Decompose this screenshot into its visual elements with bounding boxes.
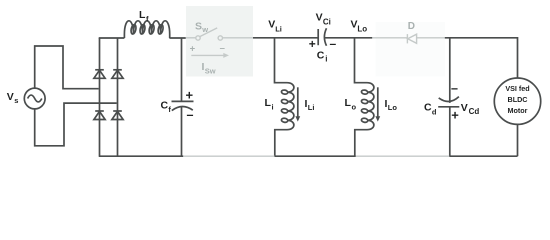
- svg-text:+: +: [186, 87, 194, 102]
- capacitor Cf plates: [172, 101, 194, 110]
- svg-text:Lo: Lo: [357, 24, 367, 33]
- svg-text:Motor: Motor: [508, 106, 528, 115]
- motor M circle: [494, 78, 540, 124]
- label Lo: [345, 97, 357, 112]
- svg-text:f: f: [168, 105, 171, 114]
- svg-text:d: d: [432, 107, 437, 116]
- wire bottom rail black segment 1: [99, 155, 184, 157]
- svg-text:s: s: [14, 96, 18, 105]
- node VLi label: [268, 18, 282, 33]
- svg-text:L: L: [265, 97, 272, 109]
- wire motor bottom: [517, 124, 519, 156]
- svg-text:+: +: [309, 37, 316, 51]
- svg-text:Cd: Cd: [469, 107, 480, 116]
- wire bottom rail grey segment 2: [356, 155, 450, 157]
- svg-text:+: +: [451, 108, 459, 123]
- capacitor Cd bottom wire: [449, 107, 451, 156]
- svg-text:S: S: [195, 20, 202, 32]
- capacitor Cf branch top wire: [181, 38, 183, 101]
- current arrow ILo: [375, 87, 380, 121]
- label ISw: [202, 61, 216, 75]
- inductor Lo branch with coil: [355, 38, 374, 156]
- switch Sw (greyed): [186, 28, 253, 40]
- svg-text:V: V: [461, 102, 468, 114]
- svg-text:V: V: [7, 91, 14, 103]
- label Sw: [195, 20, 208, 34]
- label Li: [265, 97, 274, 112]
- wire bottom rail grey segment 1: [183, 155, 274, 157]
- wire rail from Lf to switch area: [169, 37, 185, 39]
- label Cf: [161, 99, 172, 114]
- svg-text:C: C: [317, 49, 325, 61]
- wire bridge left leg: [99, 38, 101, 156]
- svg-text:–: –: [451, 82, 458, 96]
- svg-text:Li: Li: [275, 24, 282, 33]
- wire bottom rail black segment 3: [449, 155, 517, 157]
- capacitor Cd plates: [438, 97, 459, 107]
- inductor Lf: [124, 21, 169, 38]
- ac source Vs circle with sine: [24, 88, 45, 109]
- svg-text:L: L: [139, 9, 146, 21]
- capacitor Cf bottom wire: [181, 106, 183, 157]
- capacitor Cd branch top wire: [449, 38, 451, 103]
- wire Vs top terminal to bridge left leg midpoint: [35, 46, 99, 89]
- diode D4 bridge lower-right: [112, 111, 123, 120]
- svg-text:D: D: [408, 21, 415, 32]
- svg-text:Lo: Lo: [388, 103, 398, 112]
- svg-text:VSI fed: VSI fed: [505, 84, 529, 93]
- wire bridge top rail: [99, 37, 125, 39]
- current arrow ISw: [191, 53, 229, 58]
- svg-text:Li: Li: [308, 103, 315, 112]
- wire Vs bottom terminal to bridge right leg midpoint: [35, 103, 117, 146]
- wire Ci to node VLo and beyond: [325, 37, 373, 39]
- label VCi: [316, 11, 331, 26]
- svg-text:C: C: [161, 99, 169, 111]
- inductor Li branch with coil: [275, 38, 294, 156]
- motor label text: [505, 84, 529, 115]
- current arrow ILi: [295, 87, 300, 121]
- label Ci below: [317, 49, 328, 63]
- label ILi: [305, 98, 315, 112]
- svg-text:BLDC: BLDC: [508, 95, 528, 104]
- wire bridge right leg: [117, 38, 119, 156]
- wire bottom rail black segment 2: [275, 155, 356, 157]
- label Vs: [7, 91, 19, 105]
- highlight panel diode D region: [376, 22, 446, 77]
- capacitor Ci plates: [318, 28, 326, 46]
- wire top right to motor: [445, 38, 518, 78]
- svg-text:o: o: [352, 102, 357, 111]
- svg-text:–: –: [187, 108, 194, 122]
- wire switch to node VLi and on to Ci: [253, 37, 318, 39]
- svg-text:C: C: [424, 101, 432, 113]
- highlight panel switch region: [186, 6, 253, 77]
- diode D3 bridge lower-left: [94, 111, 105, 120]
- svg-text:i: i: [272, 102, 274, 111]
- node VLo label: [351, 19, 368, 34]
- svg-text:w: w: [201, 25, 208, 34]
- svg-text:V: V: [316, 11, 323, 23]
- diode D (greyed): [372, 34, 445, 43]
- svg-text:i: i: [325, 54, 327, 63]
- svg-text:Sw: Sw: [205, 66, 216, 75]
- svg-text:+: +: [190, 43, 196, 54]
- diode D2 bridge upper-right: [112, 70, 123, 79]
- label VCd: [461, 102, 480, 116]
- svg-text:–: –: [220, 43, 225, 54]
- label ILo: [385, 98, 398, 112]
- svg-text:L: L: [345, 97, 352, 109]
- label Cd: [424, 101, 437, 116]
- label Lf: [139, 9, 149, 23]
- diode D1 bridge upper-left: [94, 70, 105, 79]
- svg-text:Ci: Ci: [323, 17, 331, 26]
